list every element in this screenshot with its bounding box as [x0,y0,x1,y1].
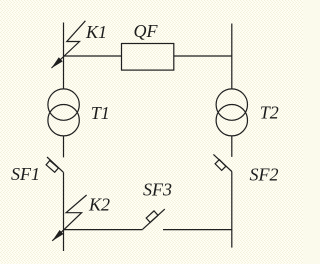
svg-text:SF1: SF1 [11,164,40,184]
svg-text:T1: T1 [91,103,110,123]
svg-text:K1: K1 [85,22,107,42]
svg-text:T2: T2 [260,103,279,123]
svg-text:QF: QF [134,21,159,41]
svg-text:SF2: SF2 [250,165,279,185]
svg-text:SF3: SF3 [143,179,172,199]
svg-text:K2: K2 [88,195,110,215]
